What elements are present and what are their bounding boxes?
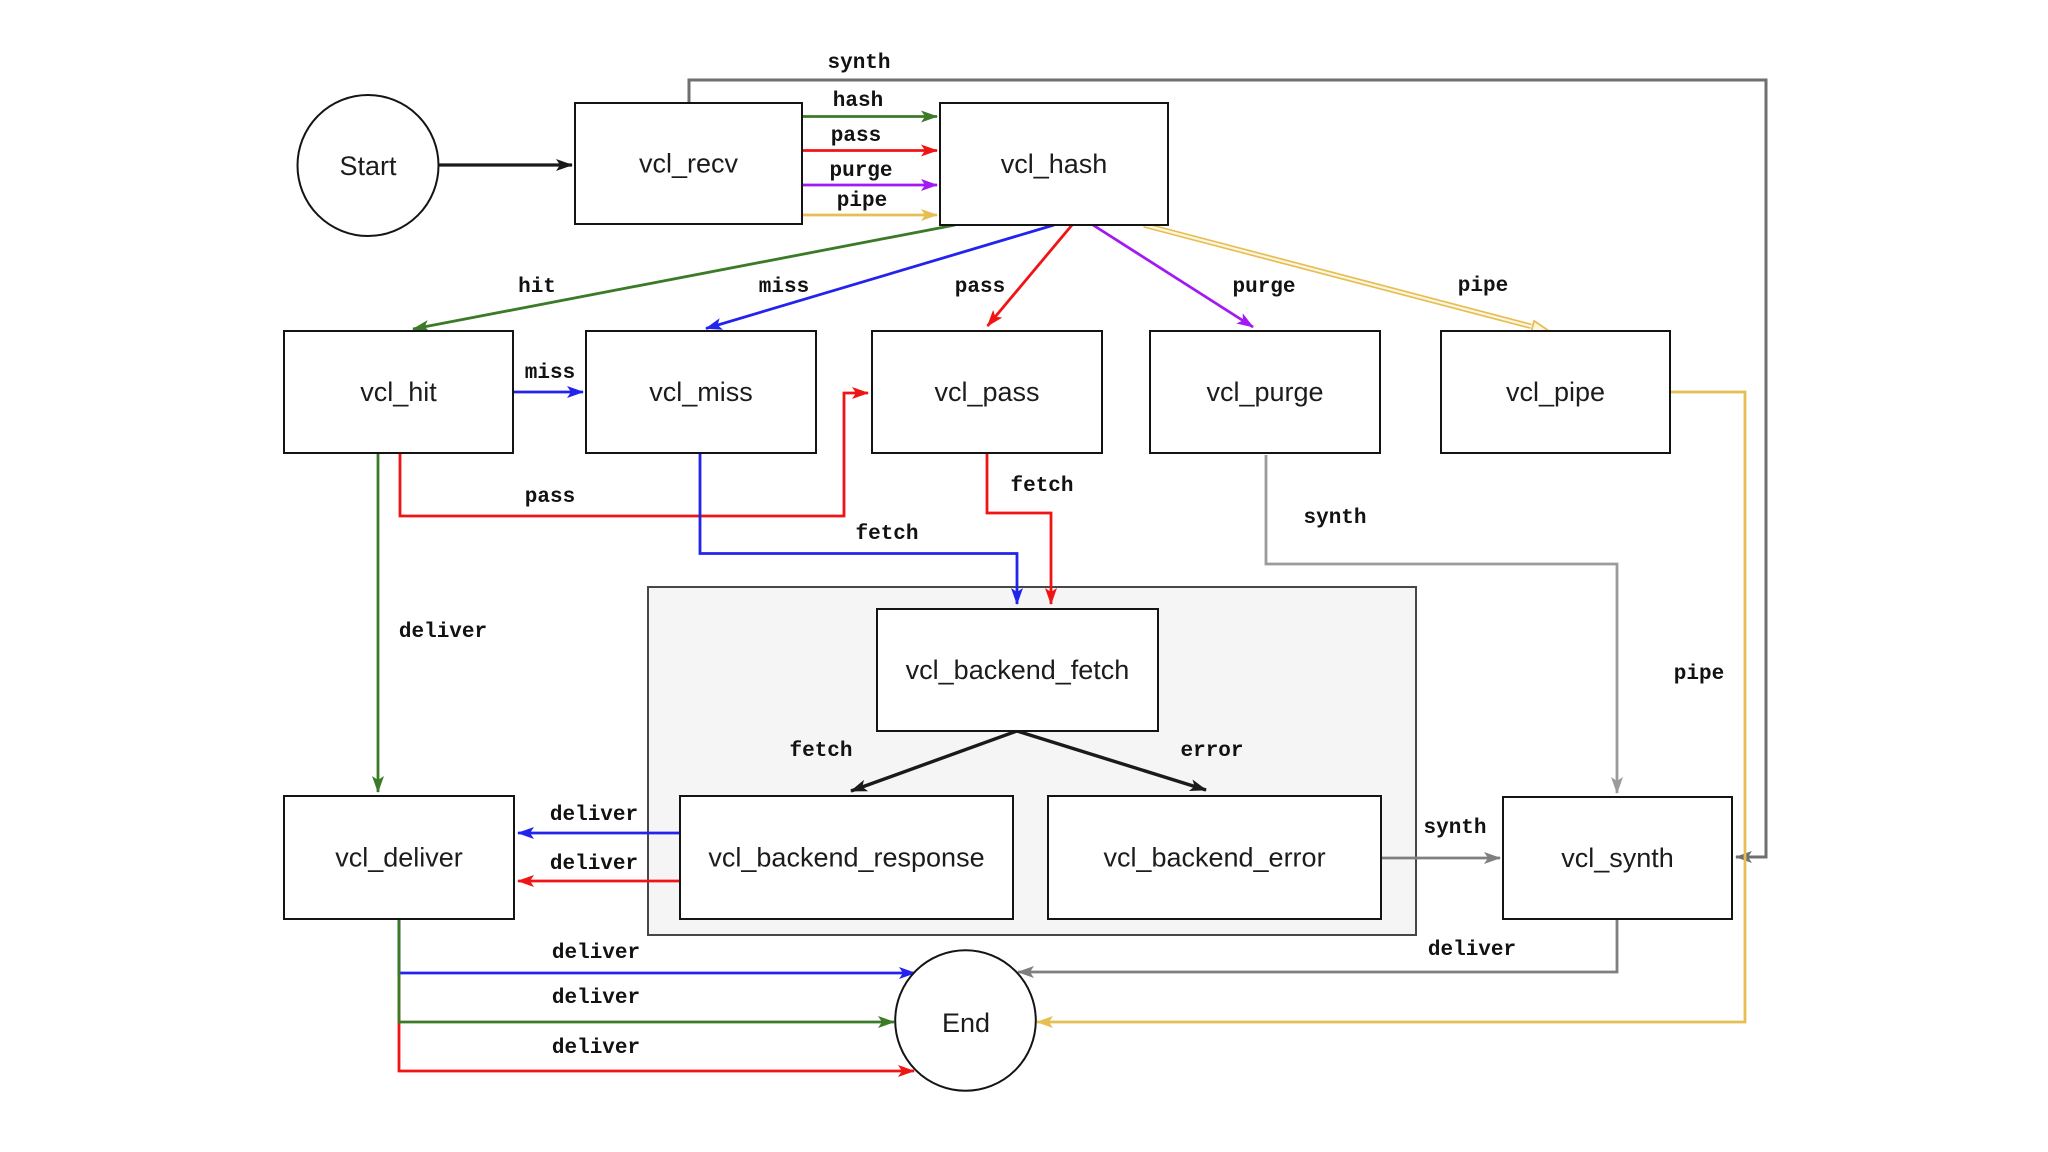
svg-text:vcl_backend_fetch: vcl_backend_fetch — [906, 655, 1130, 685]
svg-text:vcl_miss: vcl_miss — [649, 377, 753, 407]
svg-text:vcl_deliver: vcl_deliver — [335, 843, 463, 873]
svg-text:vcl_synth: vcl_synth — [1561, 843, 1674, 873]
svg-text:synth: synth — [1303, 507, 1366, 530]
svg-text:miss: miss — [525, 362, 575, 385]
svg-text:deliver: deliver — [550, 853, 638, 876]
svg-text:purge: purge — [829, 160, 892, 183]
svg-text:pipe: pipe — [837, 190, 887, 213]
svg-text:vcl_backend_error: vcl_backend_error — [1103, 843, 1325, 873]
svg-text:pass: pass — [831, 125, 881, 148]
svg-text:deliver: deliver — [399, 621, 487, 644]
svg-text:miss: miss — [759, 276, 809, 299]
svg-text:deliver: deliver — [552, 987, 640, 1010]
svg-text:vcl_recv: vcl_recv — [639, 149, 739, 179]
svg-text:hash: hash — [833, 90, 883, 113]
svg-text:fetch: fetch — [789, 740, 852, 763]
svg-text:synth: synth — [1423, 817, 1486, 840]
svg-text:fetch: fetch — [855, 523, 918, 546]
svg-text:error: error — [1180, 740, 1243, 763]
svg-text:pass: pass — [525, 486, 575, 509]
svg-text:Start: Start — [339, 151, 397, 181]
svg-text:deliver: deliver — [552, 942, 640, 965]
svg-text:purge: purge — [1232, 276, 1295, 299]
svg-text:vcl_hash: vcl_hash — [1001, 149, 1108, 179]
svg-text:pipe: pipe — [1458, 275, 1508, 298]
svg-text:vcl_pass: vcl_pass — [934, 377, 1039, 407]
svg-text:hit: hit — [518, 276, 556, 299]
svg-text:fetch: fetch — [1010, 475, 1073, 498]
svg-text:deliver: deliver — [552, 1037, 640, 1060]
svg-text:vcl_pipe: vcl_pipe — [1506, 377, 1605, 407]
svg-text:pipe: pipe — [1674, 663, 1724, 686]
svg-text:vcl_backend_response: vcl_backend_response — [708, 843, 984, 873]
svg-text:pass: pass — [955, 276, 1005, 299]
svg-text:deliver: deliver — [1428, 939, 1516, 962]
svg-text:vcl_purge: vcl_purge — [1206, 377, 1323, 407]
svg-text:vcl_hit: vcl_hit — [360, 377, 437, 407]
svg-text:deliver: deliver — [550, 804, 638, 827]
svg-text:End: End — [942, 1008, 990, 1038]
svg-text:synth: synth — [827, 52, 890, 75]
